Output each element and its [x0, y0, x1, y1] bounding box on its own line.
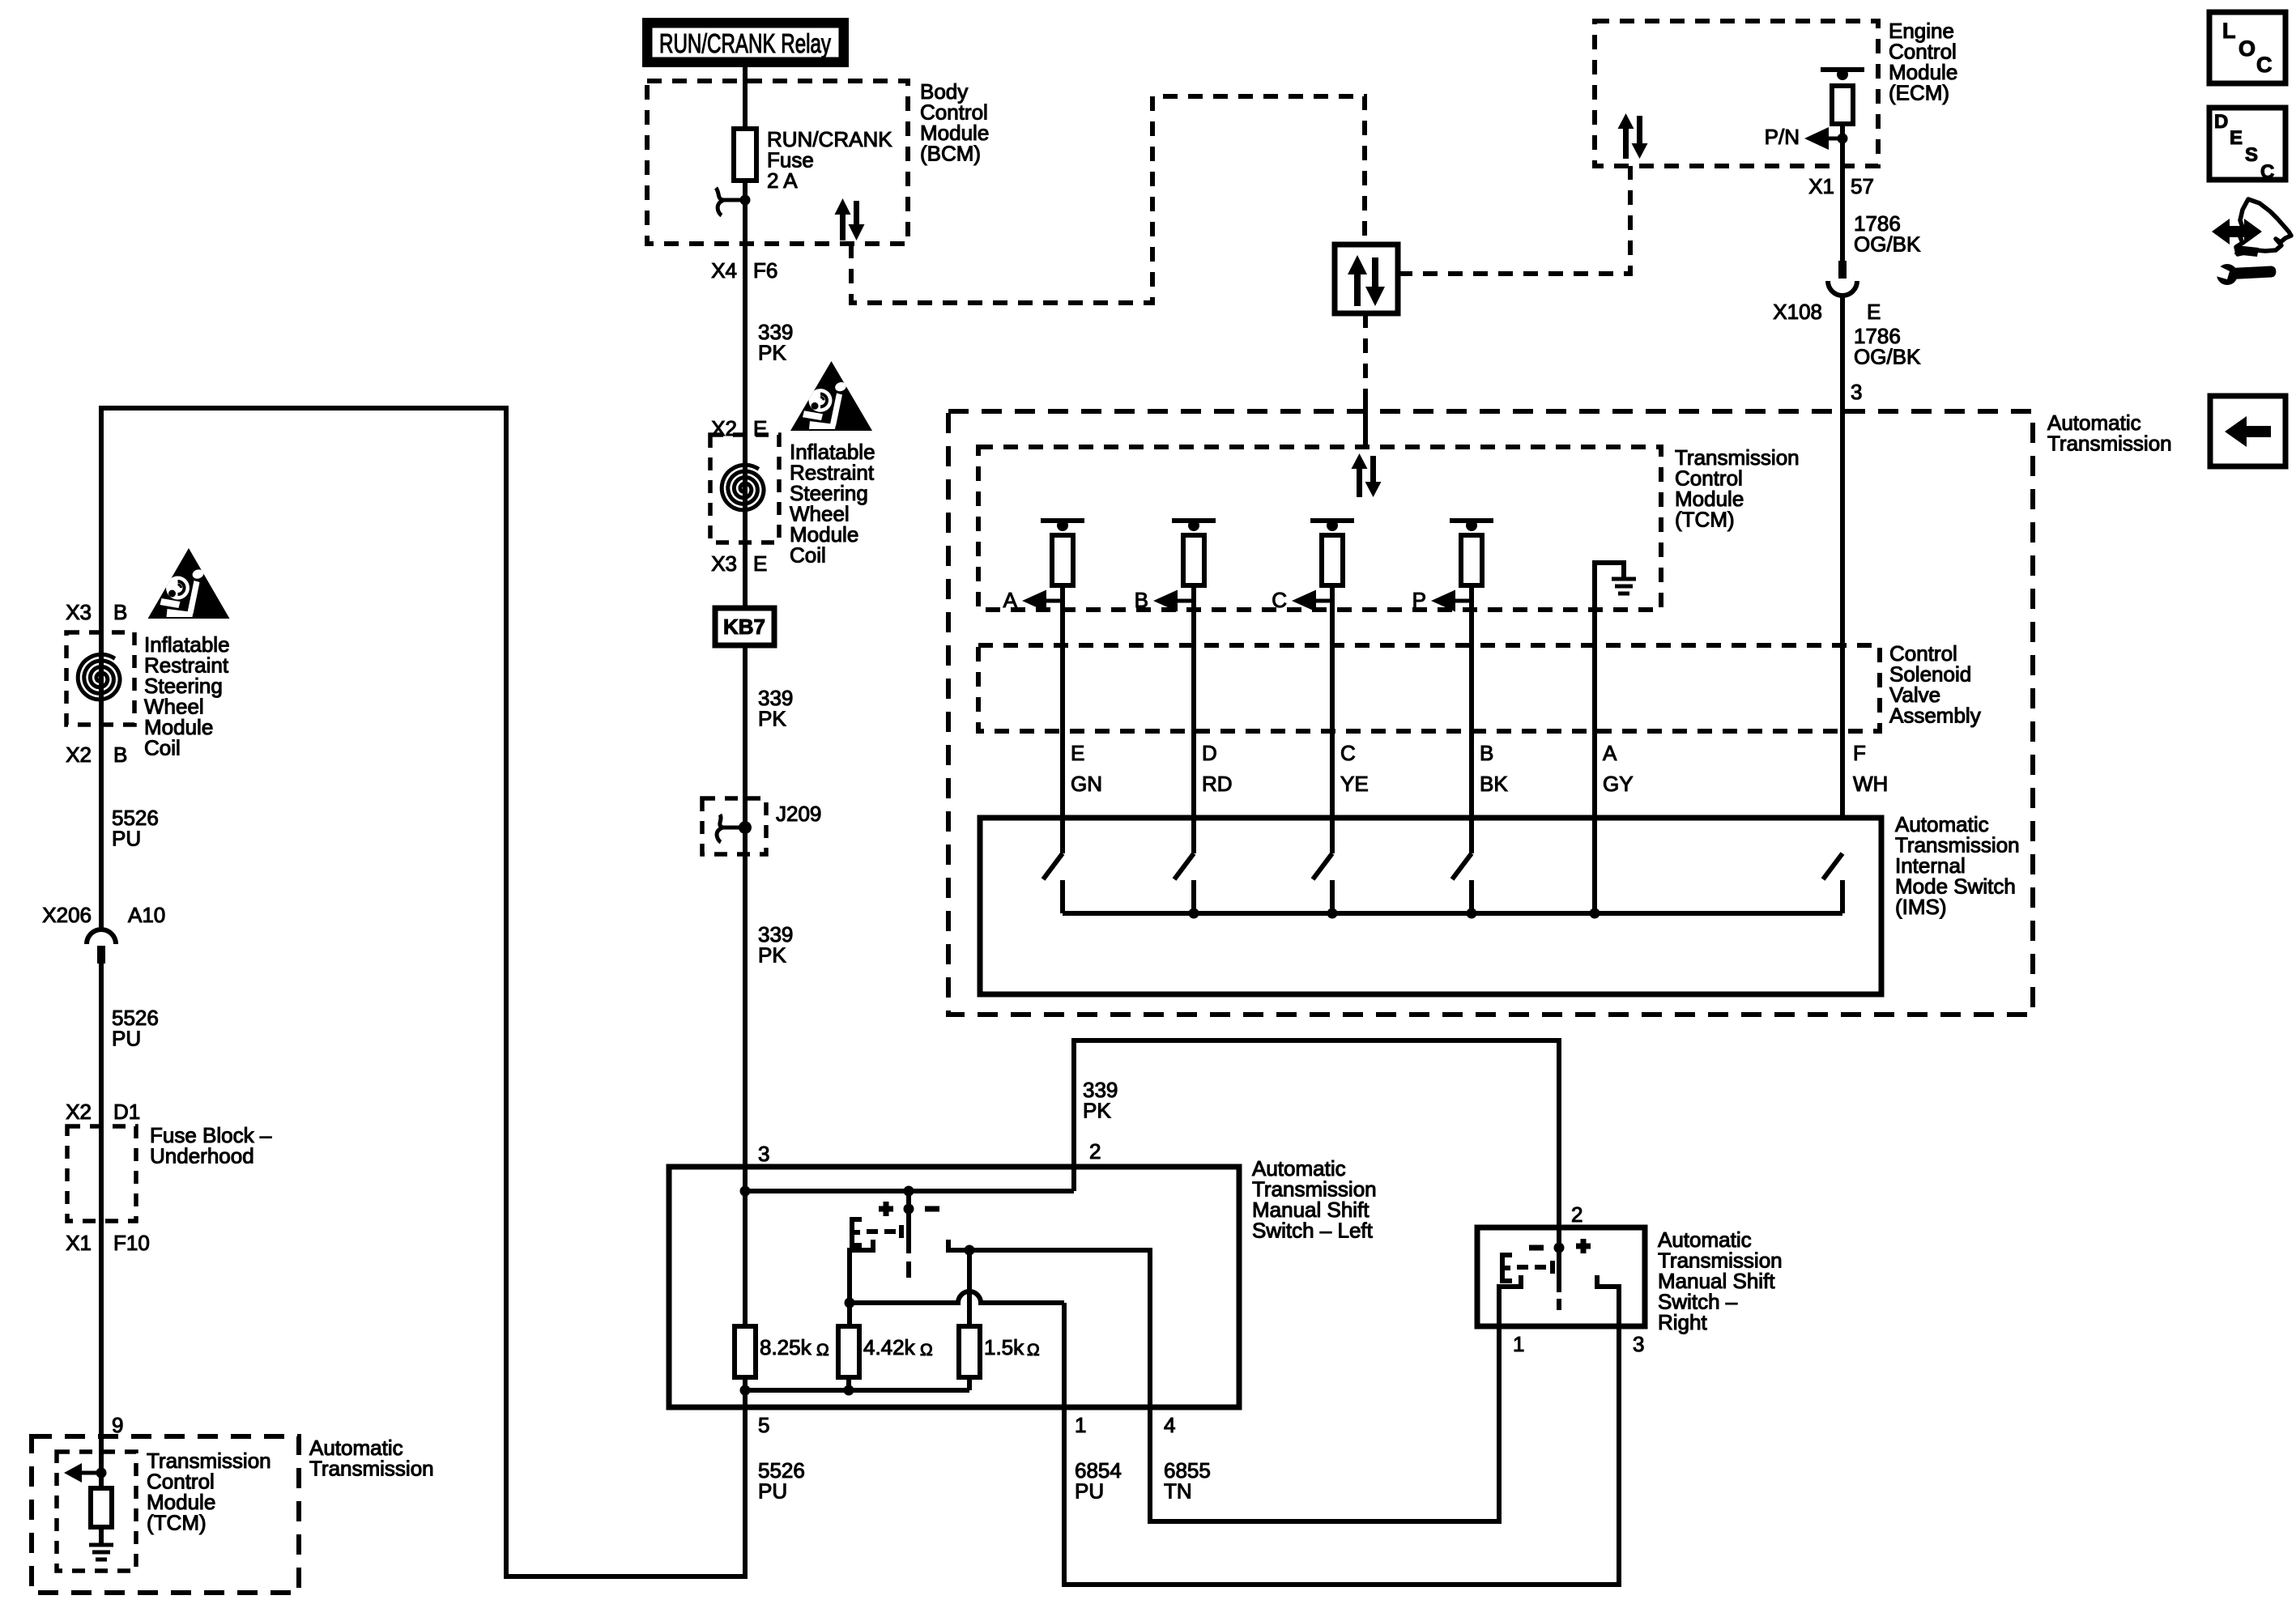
E terminal bracket right: [1502, 1255, 1512, 1281]
svg-text:A: A: [1003, 588, 1018, 612]
svg-text:E: E: [2230, 127, 2243, 149]
TCM ground wire GY: [1595, 563, 1624, 913]
TCM driver A: wire: [1060, 585, 1065, 853]
svg-text:GY: GY: [1603, 772, 1634, 796]
svg-text:BK: BK: [1480, 772, 1508, 796]
svg-text:57: 57: [1851, 174, 1874, 198]
IMS switch B: blade: [1174, 853, 1194, 879]
IMS switch B: lower contact stub: [1191, 880, 1196, 913]
serial data dashed wire gateway down: [1363, 313, 1368, 398]
IMS switch C: blade: [1313, 853, 1332, 879]
svg-text:B: B: [1135, 588, 1148, 612]
ground symbol in TCM: [1612, 577, 1636, 581]
serial data dashed wire gateway to ECM: [1398, 166, 1630, 274]
resistor 4.42k: [838, 1326, 859, 1377]
junction dot rocker feed: [904, 1186, 914, 1197]
pin1 wire down: [1062, 1303, 1067, 1407]
svg-text:2: 2: [1089, 1139, 1101, 1164]
svg-text:B: B: [113, 742, 127, 767]
svg-text:Underhood: Underhood: [150, 1144, 254, 1168]
right contact wire to pin4: [969, 1250, 1150, 1407]
plus sign right switch: [1576, 1239, 1591, 1253]
junction dot pin3: [740, 1186, 751, 1197]
svg-text:F: F: [1853, 741, 1866, 765]
svg-text:Ω: Ω: [1027, 1341, 1040, 1359]
left contact bracket: [850, 1240, 873, 1326]
ECM pull-up pin: [1821, 67, 1864, 72]
rocker feed wire: [906, 1191, 911, 1209]
svg-text:8.25k: 8.25k: [760, 1335, 812, 1359]
svg-text:X3: X3: [66, 600, 92, 624]
TCM driver A: pull-up pin: [1041, 518, 1084, 523]
svg-text:4: 4: [1164, 1413, 1175, 1437]
wire 1786 OG/BK upper: [1840, 166, 1845, 261]
svg-text:X2: X2: [66, 1100, 92, 1124]
svg-text:X2: X2: [66, 742, 92, 767]
svg-text:1.5k: 1.5k: [984, 1335, 1024, 1359]
svg-text:X4: X4: [711, 258, 737, 283]
fuse block underhood dashed box: [67, 1126, 136, 1221]
icon box LOC: [2209, 12, 2285, 83]
svg-text:X108: X108: [1773, 300, 1822, 324]
resistor 8.25k: [735, 1326, 756, 1377]
svg-text:(TCM): (TCM): [147, 1511, 207, 1535]
module box Automatic Transmission (outer dashed): [948, 411, 2033, 1015]
plus sign: [879, 1202, 893, 1216]
serial data gateway box with arrows: [1335, 245, 1398, 313]
wire through left coil box: [99, 632, 104, 930]
svg-text:E: E: [1071, 741, 1084, 765]
svg-text:PK: PK: [758, 707, 786, 731]
IMS common bus: [1063, 911, 1842, 916]
signal arrow left in TCM: [79, 1471, 101, 1475]
svg-text:3: 3: [1851, 380, 1862, 404]
svg-text:1: 1: [1513, 1332, 1524, 1356]
coil box left (Inflatable Restraint Steering Wheel Module Coil): [66, 632, 134, 725]
svg-text:B: B: [113, 600, 127, 624]
splice pack KB7: [715, 608, 774, 645]
svg-text:D: D: [1202, 741, 1217, 765]
wire 920 title-to-fuse: [743, 66, 748, 131]
IMS switch C: lower contact stub: [1330, 880, 1335, 913]
bus junction dots: [1189, 908, 1199, 919]
svg-text:X206: X206: [42, 903, 92, 927]
svg-text:TN: TN: [1164, 1479, 1192, 1504]
TCM driver B: arrow: [1174, 599, 1194, 603]
E terminal bracket: [852, 1219, 862, 1245]
svg-text:PU: PU: [112, 827, 141, 851]
svg-text:(ECM): (ECM): [1889, 81, 1949, 105]
IMS switch P: blade: [1452, 853, 1472, 879]
wire 6854 PU pin1 to right switch pin3: [1064, 1326, 1619, 1585]
svg-text:Ω: Ω: [920, 1341, 933, 1359]
module box Automatic Transmission (left outer): [32, 1436, 299, 1593]
svg-text:X1: X1: [66, 1231, 92, 1255]
icon box back arrow: [2210, 396, 2285, 466]
TCM driver A: resistor: [1052, 535, 1073, 585]
rocker lever dashed right: [1557, 1248, 1561, 1292]
resistor bottom bus: [745, 1388, 969, 1393]
right contact bracket right switch: [1597, 1275, 1619, 1326]
svg-text:L: L: [2222, 19, 2236, 43]
svg-text:F10: F10: [113, 1231, 150, 1255]
svg-text:P: P: [1412, 588, 1426, 612]
serial data arrows in BCM: [840, 212, 846, 240]
switch box Automatic Transmission Manual Shift Switch - Right: [1477, 1227, 1645, 1326]
svg-text:4.42k: 4.42k: [863, 1335, 916, 1359]
svg-text:E: E: [1867, 300, 1881, 324]
junction dot P/N: [1838, 134, 1848, 144]
TCM driver B: pull-up pin: [1172, 518, 1216, 523]
wire 339 PK segment 1: [743, 264, 748, 435]
svg-text:C: C: [2256, 53, 2273, 77]
svg-text:Right: Right: [1658, 1310, 1707, 1334]
svg-text:2: 2: [1571, 1202, 1582, 1227]
svg-text:C: C: [1340, 741, 1356, 765]
svg-text:Transmission: Transmission: [2047, 432, 2172, 456]
svg-text:S: S: [2245, 144, 2258, 166]
junction dot right contact: [965, 1245, 975, 1256]
svg-text:A10: A10: [128, 903, 165, 927]
wire 339 PK segment 2: [743, 645, 748, 801]
svg-text:B: B: [1480, 741, 1493, 765]
TCM driver P: pull-up pin: [1450, 518, 1493, 523]
svg-text:Coil: Coil: [144, 736, 181, 760]
wire 5526 PU pin5 down: [743, 1407, 748, 1579]
svg-text:J209: J209: [776, 802, 821, 826]
serial data solid wire into TCM: [1363, 397, 1368, 447]
svg-text:C: C: [2260, 161, 2274, 183]
svg-text:1: 1: [1075, 1413, 1086, 1437]
IMS switch A: blade: [1043, 853, 1063, 879]
airbag warning triangle left: [148, 548, 230, 619]
wire to TCM pin 9: [99, 1221, 104, 1488]
svg-text:X1: X1: [1808, 174, 1834, 198]
relay contact switch: [716, 188, 745, 200]
rocker dot right switch: [1554, 1243, 1565, 1253]
ECM serial arrows: [1623, 126, 1629, 159]
wire resistor to ground: [99, 1527, 104, 1545]
ground symbol TCM left: [89, 1543, 113, 1547]
right contact bracket: [948, 1240, 969, 1250]
inline connector X108 E: [1838, 261, 1847, 279]
TCM driver B: resistor: [1183, 535, 1204, 585]
TCM driver B: wire: [1191, 585, 1196, 853]
junction dot contact to bus: [845, 1298, 855, 1308]
svg-text:D1: D1: [113, 1100, 140, 1124]
svg-text:C: C: [1272, 588, 1287, 612]
wire through fuse block: [99, 1126, 104, 1221]
icon hand with wrench: [2212, 199, 2291, 285]
svg-text:PU: PU: [112, 1027, 141, 1051]
wire 1786 OG/BK lower: [1840, 295, 1845, 818]
wire through coil box: [743, 435, 748, 542]
svg-text:Ω: Ω: [816, 1341, 829, 1359]
svg-text:E: E: [753, 551, 767, 576]
svg-text:RD: RD: [1202, 772, 1233, 796]
wire below X206: [99, 964, 104, 1126]
serial data arrows at TCM: [1357, 466, 1362, 497]
svg-text:3: 3: [758, 1142, 769, 1166]
minus sign: [925, 1206, 939, 1212]
minus sign right switch: [1529, 1245, 1544, 1251]
junction dots resistor bus: [740, 1385, 751, 1396]
switch box Automatic Transmission Manual Shift Switch - Left: [669, 1167, 1239, 1407]
TCM driver C: arrow: [1313, 599, 1332, 603]
svg-text:KB7: KB7: [723, 615, 765, 639]
module box Control Solenoid Valve Assembly: [978, 645, 1880, 731]
svg-text:9: 9: [112, 1413, 123, 1437]
coil spiral symbol: [722, 465, 764, 510]
module box IMS (Automatic Transmission Internal Mode Switch): [980, 818, 1881, 994]
svg-text:X3: X3: [711, 551, 737, 576]
TCM driver P: wire: [1469, 585, 1474, 853]
svg-text:PU: PU: [758, 1479, 787, 1504]
relay title box RUN/CRANK Relay: [642, 18, 849, 67]
rocker lever dashed: [906, 1209, 911, 1253]
svg-text:OG/BK: OG/BK: [1854, 232, 1921, 257]
svg-text:RUN/CRANK Relay: RUN/CRANK Relay: [659, 28, 831, 58]
fuse RUN/CRANK Fuse 2A: [734, 129, 756, 181]
svg-text:A: A: [1603, 741, 1617, 765]
wire resistor to P/N node: [1840, 124, 1845, 166]
resistor in TCM left: [91, 1488, 112, 1527]
svg-text:YE: YE: [1340, 772, 1369, 796]
wire coil to KB7: [743, 542, 748, 608]
svg-text:O: O: [2238, 36, 2256, 61]
wire 339 PK segment 3: [743, 854, 748, 1167]
svg-text:PK: PK: [1083, 1099, 1111, 1123]
wire 1.5k through hop gap: [967, 1250, 972, 1326]
svg-text:Transmission: Transmission: [309, 1457, 434, 1481]
module box TCM (Transmission Control Module): [978, 447, 1661, 610]
wire 920 fuse-to-X4: [743, 181, 748, 264]
svg-text:PK: PK: [758, 341, 786, 365]
serial data dashed wire BCM to gateway: [851, 96, 1365, 303]
svg-text:PU: PU: [1075, 1479, 1104, 1504]
IMS switch F(WH): wire and blade: [1823, 853, 1842, 879]
wire 5526 PU left loop: [101, 408, 745, 1576]
TCM driver C: resistor: [1322, 535, 1343, 585]
svg-text:PK: PK: [758, 943, 786, 968]
svg-text:Assembly: Assembly: [1889, 704, 1981, 728]
splice J209: [702, 798, 766, 854]
svg-text:D: D: [2214, 111, 2228, 133]
IMS switch P: lower contact stub: [1469, 880, 1474, 913]
coil box Inflatable Restraint Steering Wheel Module Coil: [710, 435, 779, 542]
icon box DESC: [2209, 108, 2285, 180]
svg-text:3: 3: [1633, 1332, 1644, 1356]
internal wire pin3 to pin2: [745, 1189, 1074, 1193]
resistor in ECM: [1832, 86, 1853, 124]
svg-text:P/N: P/N: [1765, 125, 1800, 149]
TCM driver A: arrow: [1043, 599, 1063, 603]
pin3 wire into box: [743, 1167, 748, 1326]
svg-text:2 A: 2 A: [767, 168, 798, 193]
wire 6855 TN pin4 to right switch pin1: [1150, 1326, 1499, 1521]
svg-text:OG/BK: OG/BK: [1854, 345, 1921, 369]
junction dot below fuse: [740, 195, 751, 206]
airbag warning triangle (steering wheel coil): [790, 361, 872, 431]
svg-text:5: 5: [758, 1413, 769, 1437]
svg-text:Coil: Coil: [790, 543, 826, 568]
rocker dot left switch: [904, 1204, 914, 1215]
svg-text:GN: GN: [1071, 772, 1102, 796]
svg-text:WH: WH: [1853, 772, 1888, 796]
IMS switch A: lower contact stub: [1060, 880, 1065, 913]
pin1 bus with hop over 1.5k wire: [850, 1291, 1064, 1303]
wire 339 PK to shift switches: [1074, 1040, 1559, 1248]
resistor 1.5k: [959, 1326, 980, 1377]
svg-text:(BCM): (BCM): [920, 142, 981, 166]
svg-text:F6: F6: [753, 258, 777, 283]
module box TCM left inner: [57, 1452, 136, 1571]
svg-text:(TCM): (TCM): [1675, 508, 1735, 532]
left contact bracket right switch: [1499, 1275, 1521, 1326]
TCM driver C: pull-up pin: [1310, 518, 1354, 523]
TCM driver P: resistor: [1461, 535, 1482, 585]
svg-text:Switch – Left: Switch – Left: [1252, 1219, 1374, 1243]
svg-text:(IMS): (IMS): [1895, 895, 1947, 919]
module box BCM (Body Control Module): [647, 81, 908, 244]
TCM driver P: arrow: [1452, 599, 1472, 603]
TCM driver C: wire: [1330, 585, 1335, 853]
left coil spiral: [78, 654, 120, 700]
module box ECM (Engine Control Module): [1595, 21, 1878, 166]
junction dot TCM input: [96, 1468, 107, 1478]
P/N arrow: [1825, 137, 1842, 141]
